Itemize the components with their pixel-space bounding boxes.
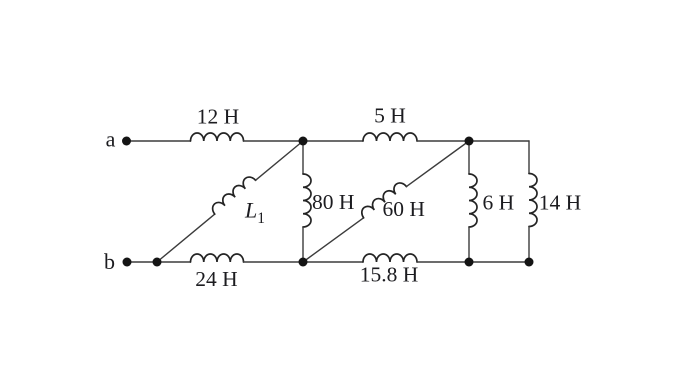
node top middle dot — [299, 137, 308, 146]
inductor 5H coil — [363, 133, 417, 141]
inductor L1 coil — [210, 174, 256, 214]
inductor 60H coil — [359, 180, 407, 218]
wire diagonal L1 upper segment — [256, 141, 304, 180]
node bottom right dot — [525, 258, 534, 267]
svg-text:L1: L1 — [244, 198, 265, 228]
wire top rail left segment (a to 12H) — [131, 140, 191, 142]
wire bottom rail 24H to node — [244, 261, 364, 263]
node bottom 6H dot — [465, 258, 474, 267]
inductor 24H coil — [191, 254, 244, 262]
wire diagonal 60H lower segment — [303, 218, 364, 262]
wire top rail right segment (5H to corner) — [417, 140, 529, 142]
node terminal a dot — [122, 137, 131, 146]
node top right dot — [465, 137, 474, 146]
svg-text:a: a — [106, 127, 116, 152]
node bottom middle dot — [299, 258, 308, 267]
wire right edge bottom segment — [528, 227, 530, 263]
svg-text:24 H: 24 H — [195, 267, 237, 291]
svg-text:15.8 H: 15.8 H — [360, 263, 419, 287]
wire bottom rail b to junction — [127, 261, 157, 263]
wire diagonal L1 lower segment — [157, 214, 215, 262]
svg-text:6 H: 6 H — [483, 191, 515, 215]
svg-text:5 H: 5 H — [374, 104, 406, 128]
wire right edge top segment — [528, 141, 530, 174]
wire 80H branch bottom segment — [302, 227, 304, 262]
node b junction dot — [153, 258, 162, 267]
inductor 6H coil — [469, 174, 477, 227]
wire 6H branch bottom segment — [468, 227, 470, 262]
svg-text:14 H: 14 H — [539, 191, 581, 215]
inductor 15.8H coil — [363, 254, 417, 262]
wire top rail middle segment (12H to node) — [244, 140, 364, 142]
wire 6H branch top segment — [468, 141, 470, 174]
inductor L 12H coil — [191, 133, 244, 141]
inductor 14H coil — [529, 174, 537, 227]
svg-text:60 H: 60 H — [383, 197, 425, 221]
node terminal b dot — [123, 258, 132, 267]
svg-text:12 H: 12 H — [197, 105, 239, 129]
svg-text:80 H: 80 H — [312, 190, 354, 214]
inductor 80H coil — [303, 174, 311, 227]
wire 80H branch top segment — [302, 141, 304, 174]
wire diagonal 60H upper segment — [406, 141, 469, 187]
wire bottom rail junction to 24H — [157, 261, 191, 263]
svg-text:b: b — [104, 249, 115, 274]
wire bottom rail right segment — [417, 261, 529, 263]
